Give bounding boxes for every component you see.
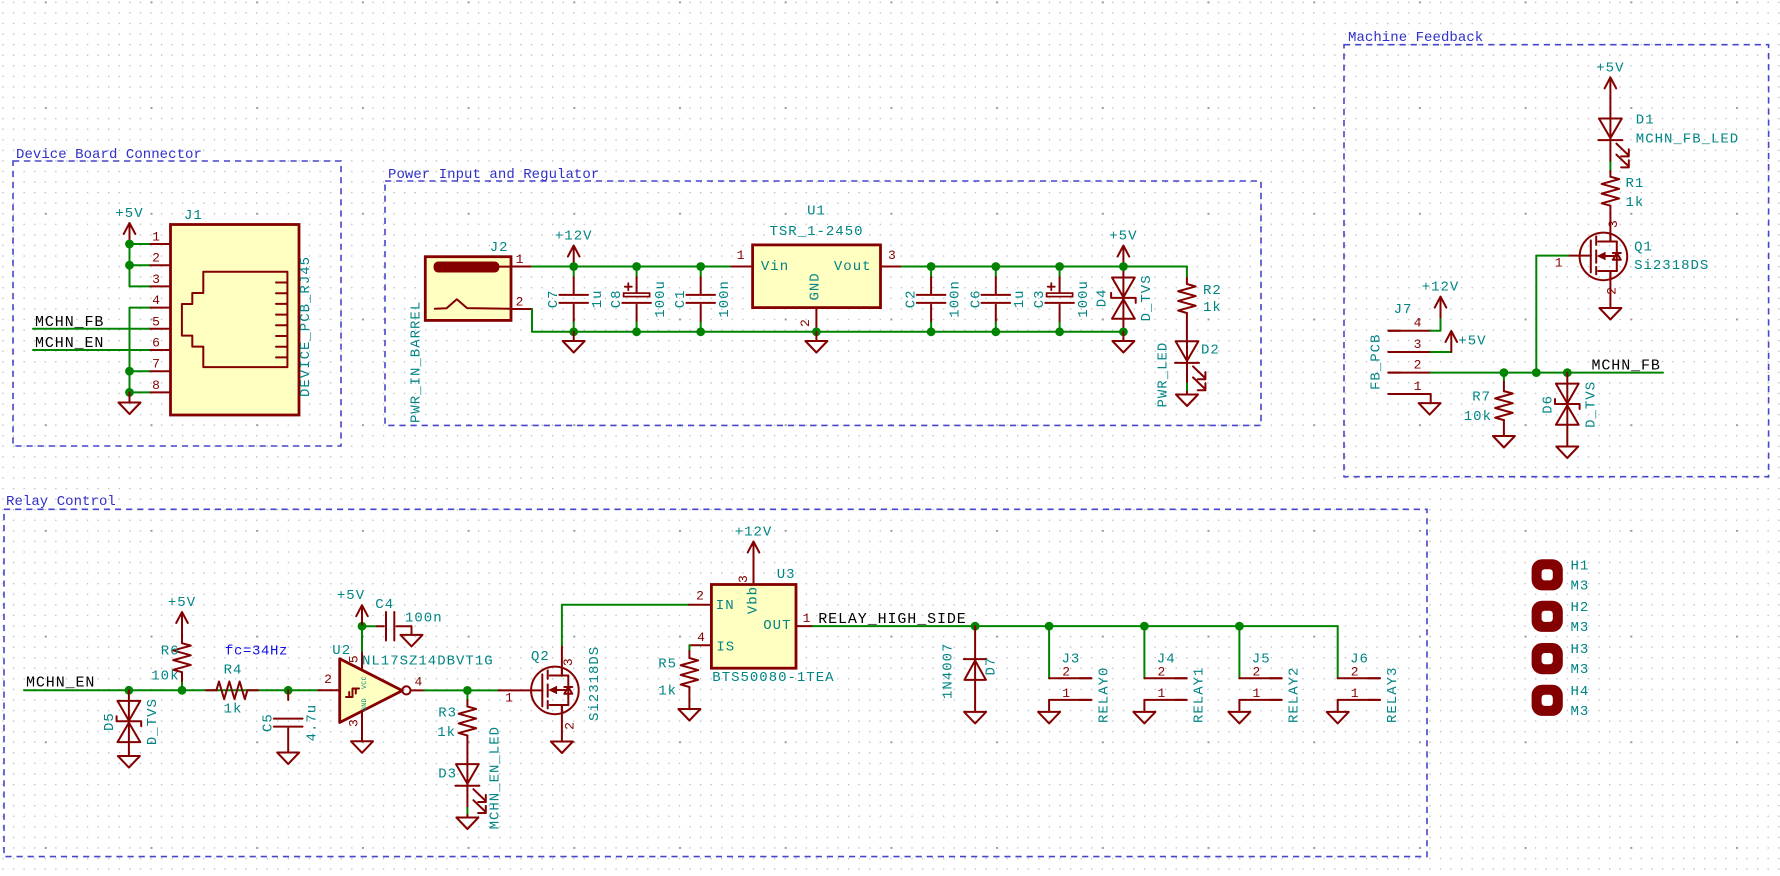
- wire D2 to gnd: [1186, 363, 1188, 384]
- J2 tip contact wave: [435, 299, 511, 309]
- svg-text:C4: C4: [375, 597, 394, 613]
- ground (C5): [277, 753, 299, 765]
- resistor R3 1k: [466, 690, 468, 700]
- svg-text:100n: 100n: [405, 611, 443, 627]
- junction D4 top: [1119, 262, 1128, 271]
- svg-text:Si2318DS: Si2318DS: [1634, 258, 1709, 274]
- wire down to pin3: [130, 244, 150, 286]
- U2 pin 4 output: [411, 689, 425, 691]
- svg-text:Si2318DS: Si2318DS: [587, 646, 603, 721]
- svg-text:+5V: +5V: [168, 595, 196, 611]
- U1 pin 2 GND: [815, 308, 817, 332]
- svg-text:FB_PCB: FB_PCB: [1369, 334, 1385, 390]
- svg-text:R3: R3: [438, 706, 457, 722]
- svg-text:3: 3: [561, 658, 576, 666]
- svg-text:RELAY3: RELAY3: [1385, 667, 1401, 723]
- svg-text:M3: M3: [1571, 578, 1590, 594]
- diode D4 D_TVS: [1122, 267, 1124, 278]
- switch U3 body: [711, 585, 796, 669]
- wire to J4: [1143, 626, 1145, 678]
- svg-text:Q2: Q2: [531, 649, 550, 665]
- ground (J7 pin1): [1430, 394, 1432, 403]
- junction C7 bottom: [569, 327, 578, 336]
- svg-text:U3: U3: [777, 567, 796, 583]
- svg-text:IN: IN: [716, 598, 735, 614]
- resistor R7 10k: [1503, 373, 1505, 382]
- J2 barrel pin bar: [434, 262, 500, 273]
- svg-text:M3: M3: [1571, 662, 1590, 678]
- svg-text:MCHN_FB_LED: MCHN_FB_LED: [1636, 132, 1739, 148]
- junction U2 vcc: [358, 622, 367, 631]
- wire J7 pin3 to +5V: [1431, 351, 1452, 353]
- junction D5: [124, 686, 133, 695]
- svg-text:2: 2: [562, 722, 577, 730]
- wire J7 pin4 to +12V: [1431, 318, 1441, 331]
- U3 pin 3 Vbb: [753, 563, 755, 585]
- svg-text:5: 5: [347, 655, 362, 663]
- svg-text:M3: M3: [1571, 620, 1590, 636]
- svg-text:GND: GND: [808, 272, 824, 300]
- ground (D3): [456, 818, 478, 830]
- svg-text:M3: M3: [1571, 704, 1590, 720]
- wire to J5: [1238, 626, 1240, 678]
- svg-text:R7: R7: [1472, 390, 1491, 406]
- wire pin1 bus: [130, 243, 150, 245]
- svg-text:4: 4: [152, 293, 160, 308]
- svg-text:PWR_LED: PWR_LED: [1156, 342, 1172, 408]
- svg-text:R2: R2: [1203, 283, 1222, 299]
- svg-text:TSR_1-2450: TSR_1-2450: [769, 224, 863, 240]
- svg-text:4: 4: [414, 674, 422, 689]
- wire +5V to D1: [1609, 98, 1611, 118]
- junction D7: [971, 622, 980, 631]
- svg-text:D_TVS: D_TVS: [145, 698, 161, 745]
- svg-text:1k: 1k: [224, 702, 243, 718]
- svg-text:4: 4: [697, 630, 705, 645]
- wire Q2 drain to U3 IN: [562, 605, 689, 646]
- ground (J3): [1048, 700, 1050, 712]
- junction C2 top: [927, 262, 936, 271]
- svg-text:R6: R6: [161, 643, 180, 659]
- wire MCHN_FB (feedback): [1431, 372, 1663, 374]
- section box: Relay Control: [4, 509, 1427, 856]
- svg-text:J3: J3: [1062, 651, 1081, 667]
- resistor R4 1k: [206, 689, 216, 691]
- U3 pin 4 IS: [690, 644, 712, 646]
- svg-text:+5V: +5V: [1458, 333, 1486, 349]
- svg-text:H2: H2: [1571, 600, 1590, 616]
- svg-text:D_TVS: D_TVS: [1139, 274, 1155, 321]
- wire D3 to gnd: [466, 786, 468, 808]
- junction D6: [1563, 368, 1572, 377]
- wire J2 pin2 to gnd rail: [531, 309, 533, 332]
- svg-text:1: 1: [1157, 686, 1165, 701]
- svg-text:R1: R1: [1626, 176, 1645, 192]
- J1 RJ45 jack drawing: [182, 272, 288, 367]
- svg-text:NL17SZ14DBVT1G: NL17SZ14DBVT1G: [362, 654, 494, 670]
- svg-text:7: 7: [152, 357, 160, 372]
- svg-text:DEVICE_PCB_RJ45: DEVICE_PCB_RJ45: [298, 256, 314, 397]
- svg-text:100u: 100u: [1076, 280, 1092, 318]
- svg-text:3: 3: [1606, 220, 1621, 228]
- wire gate to MCHN_FB: [1536, 255, 1568, 257]
- svg-text:1: 1: [152, 230, 160, 245]
- J7 pin 1: [1388, 393, 1430, 395]
- connector J5 pin 2: [1239, 677, 1281, 679]
- Q2 drain pin: [561, 645, 563, 676]
- svg-text:MCHN_EN_LED: MCHN_EN_LED: [488, 726, 504, 829]
- junction C3 top: [1055, 262, 1064, 271]
- svg-text:C5: C5: [261, 713, 277, 732]
- Q1 source pin: [1609, 271, 1611, 308]
- capacitor C8 100u: [636, 267, 638, 278]
- J7 pin 2: [1388, 372, 1430, 374]
- svg-text:2: 2: [1414, 357, 1422, 372]
- junction C7 top: [569, 262, 578, 271]
- svg-text:J1: J1: [184, 208, 203, 224]
- section box: Power Input and Regulator: [385, 181, 1261, 425]
- capacitor C4 100n: [362, 625, 377, 627]
- wire MCHN_FB: [33, 328, 149, 330]
- svg-text:100n: 100n: [717, 280, 733, 318]
- svg-text:10k: 10k: [1464, 409, 1492, 425]
- ground (J6): [1337, 700, 1339, 712]
- svg-text:VCC: VCC: [361, 676, 368, 689]
- capacitor C6 1u: [995, 267, 997, 278]
- connector J4 pin 2: [1144, 677, 1186, 679]
- junction pin7: [125, 367, 134, 376]
- wire to J3: [1048, 626, 1050, 678]
- svg-text:2: 2: [798, 319, 813, 327]
- junction R6: [178, 686, 187, 695]
- svg-text:RELAY_HIGH_SIDE: RELAY_HIGH_SIDE: [818, 611, 967, 628]
- svg-text:C2: C2: [904, 289, 920, 308]
- svg-text:1: 1: [1351, 686, 1359, 701]
- regulator U1 body: [753, 245, 881, 308]
- svg-text:+12V: +12V: [735, 525, 773, 541]
- svg-text:3: 3: [152, 272, 160, 287]
- svg-text:1: 1: [1555, 255, 1563, 270]
- svg-text:1: 1: [1062, 686, 1070, 701]
- svg-text:IS: IS: [716, 639, 735, 655]
- junction J5: [1235, 622, 1244, 631]
- svg-text:RELAY1: RELAY1: [1192, 667, 1208, 723]
- ground (Q2): [551, 742, 573, 754]
- svg-text:Vout: Vout: [834, 259, 872, 275]
- junction pin8: [125, 388, 134, 397]
- power +5V (J7): [1450, 333, 1452, 353]
- transistor Q2 Si2318DS: [531, 667, 579, 715]
- junction C6 top: [991, 262, 1000, 271]
- junction R7: [1500, 368, 1509, 377]
- mounting hole H4 M3: [1532, 685, 1563, 716]
- ground (R7): [1493, 436, 1515, 448]
- U1 pin 1 Vin: [731, 266, 752, 268]
- buffer U2 body: [340, 659, 403, 723]
- svg-text:D3: D3: [438, 766, 457, 782]
- power +5V (U2): [361, 607, 363, 627]
- wire MCHN_EN: [33, 349, 149, 351]
- svg-text:+12V: +12V: [555, 229, 593, 245]
- wire R3 to D3: [466, 736, 468, 765]
- svg-text:MCHN_FB: MCHN_FB: [1592, 358, 1661, 375]
- svg-text:2: 2: [696, 588, 704, 603]
- barrel jack J2 body: [425, 257, 511, 321]
- svg-text:2: 2: [1604, 287, 1619, 295]
- U3 pin 1 OUT: [796, 625, 813, 627]
- svg-text:1: 1: [803, 611, 811, 626]
- svg-text:2: 2: [152, 251, 160, 266]
- svg-text:C6: C6: [968, 289, 984, 308]
- svg-text:1k: 1k: [437, 725, 456, 741]
- capacitor C1 100n: [700, 267, 702, 278]
- wire R5 to gnd: [688, 687, 690, 709]
- ground (D5): [118, 756, 140, 768]
- svg-text:D_TVS: D_TVS: [1583, 381, 1599, 428]
- svg-text:+12V: +12V: [1422, 280, 1460, 296]
- J1 pins 1-8 with numbers: [149, 243, 171, 245]
- ground (D2): [1176, 395, 1198, 407]
- svg-text:R4: R4: [224, 663, 243, 679]
- svg-text:1k: 1k: [1203, 300, 1222, 316]
- svg-text:Machine Feedback: Machine Feedback: [1348, 30, 1483, 46]
- capacitor C5 4.7u: [287, 690, 289, 700]
- power +5V (J1): [129, 225, 131, 245]
- svg-text:OUT: OUT: [763, 618, 791, 634]
- LED D2 PWR_LED: [1186, 341, 1188, 363]
- LED D3 MCHN_EN_LED: [466, 764, 468, 786]
- ground (J5): [1238, 700, 1240, 712]
- ground (D6): [1556, 447, 1578, 459]
- junction C3 bottom: [1055, 327, 1064, 336]
- ground (U1): [815, 332, 817, 341]
- wire pin7: [130, 370, 150, 372]
- U3 pin 2 IN: [689, 604, 711, 606]
- ground (J4): [1143, 700, 1145, 712]
- power +5V (machine feedback): [1609, 79, 1611, 99]
- svg-text:1: 1: [1414, 379, 1422, 394]
- svg-text:6: 6: [152, 336, 160, 351]
- Q2 gate pin: [499, 689, 543, 691]
- mounting hole H1 M3: [1532, 559, 1563, 590]
- wire pin4 to gnd bus: [130, 308, 150, 393]
- svg-text:3: 3: [1414, 337, 1422, 352]
- svg-text:D2: D2: [1201, 343, 1220, 359]
- svg-text:4: 4: [1414, 316, 1422, 331]
- U2 output bubble: [402, 686, 410, 694]
- svg-text:D7: D7: [984, 657, 1000, 676]
- connector J3 pin 1: [1049, 699, 1091, 701]
- section box: Device Board Connector: [13, 161, 341, 446]
- svg-text:Q1: Q1: [1634, 239, 1653, 255]
- power +5V (R6): [181, 614, 183, 634]
- svg-text:+5V: +5V: [1596, 60, 1624, 76]
- J2 pin 2: [511, 308, 532, 310]
- junction C8 top: [632, 262, 641, 271]
- wire MCHN_EN (relay): [24, 689, 319, 691]
- svg-text:C1: C1: [673, 289, 689, 308]
- U2 pin 5 VCC: [361, 651, 363, 670]
- connector J4 pin 1: [1144, 699, 1186, 701]
- ground (R5): [678, 709, 700, 721]
- resistor R2 1k: [1186, 278, 1188, 284]
- junction pin1: [125, 240, 134, 249]
- svg-text:Device Board Connector: Device Board Connector: [16, 147, 202, 163]
- junction C8 bottom: [632, 327, 641, 336]
- wire U2 out: [424, 689, 498, 691]
- connector J3 pin 2: [1049, 677, 1091, 679]
- svg-text:PWR_IN_BARREL: PWR_IN_BARREL: [409, 301, 425, 423]
- svg-text:D5: D5: [102, 712, 118, 731]
- diode D6 D_TVS: [1566, 373, 1568, 384]
- svg-text:H4: H4: [1571, 684, 1590, 700]
- power +12V (J7): [1440, 298, 1442, 318]
- svg-text:1: 1: [505, 691, 513, 706]
- capacitor C7 1u: [573, 267, 575, 278]
- wire RELAY_HIGH_SIDE: [813, 625, 1338, 627]
- svg-text:RELAY2: RELAY2: [1287, 667, 1303, 723]
- wire R7 to gnd: [1503, 420, 1505, 436]
- svg-text:MCHN_EN: MCHN_EN: [26, 674, 95, 691]
- svg-text:+5V: +5V: [1109, 229, 1137, 245]
- junction pin2: [125, 261, 134, 270]
- svg-text:Vin: Vin: [761, 259, 789, 275]
- svg-text:1: 1: [516, 252, 524, 267]
- junction C6 bottom: [991, 327, 1000, 336]
- wire to R2: [1186, 267, 1188, 279]
- Q1 gate pin: [1568, 255, 1591, 257]
- svg-text:D4: D4: [1094, 288, 1110, 307]
- svg-text:H3: H3: [1571, 642, 1590, 658]
- wire pin2: [130, 264, 150, 266]
- wire D1 to R1: [1609, 142, 1611, 162]
- wire +12V rail: [532, 266, 731, 268]
- svg-text:1u: 1u: [590, 289, 606, 308]
- svg-text:5: 5: [152, 314, 160, 329]
- wire +5V to pin5: [361, 626, 363, 651]
- svg-text:3: 3: [736, 575, 751, 583]
- svg-text:100u: 100u: [653, 280, 669, 318]
- J7 pin 3: [1388, 351, 1430, 353]
- svg-text:+5V: +5V: [115, 206, 143, 222]
- power +5V (regulator out): [1122, 247, 1124, 267]
- U2 pin 2 input: [319, 689, 340, 691]
- wire R1 to Q1 drain: [1609, 206, 1611, 242]
- svg-text:D6: D6: [1541, 395, 1557, 414]
- svg-text:+5V: +5V: [337, 588, 365, 604]
- svg-text:J2: J2: [490, 240, 509, 256]
- svg-text:1N4007: 1N4007: [941, 643, 957, 699]
- svg-text:10k: 10k: [151, 669, 179, 685]
- wire gate vertical: [1535, 256, 1537, 373]
- wire D5 to gnd: [128, 742, 130, 756]
- junction J3: [1045, 622, 1054, 631]
- wire R2 to D2: [1186, 313, 1188, 341]
- svg-text:U1: U1: [807, 204, 826, 220]
- diode D7 1N4007: [974, 626, 976, 680]
- power +12V: [573, 247, 575, 267]
- svg-text:4.7u: 4.7u: [305, 704, 321, 742]
- Q2 source pin: [561, 705, 563, 742]
- section box: Machine Feedback: [1344, 45, 1769, 477]
- svg-text:fc=34Hz: fc=34Hz: [225, 643, 288, 659]
- capacitor C3 100u: [1059, 267, 1061, 278]
- U2 schmitt symbol: [346, 689, 359, 698]
- ground (C4): [401, 635, 423, 647]
- junction D4 bottom: [1119, 327, 1128, 336]
- ground (J1): [129, 392, 131, 402]
- svg-text:J5: J5: [1252, 651, 1271, 667]
- svg-text:2: 2: [516, 295, 524, 310]
- LED D1 MCHN_FB_LED: [1609, 119, 1611, 141]
- mounting hole H3 M3: [1532, 643, 1563, 674]
- wire pin8: [130, 391, 150, 393]
- ground (C7): [573, 332, 575, 341]
- junction R3: [463, 686, 472, 695]
- junction C5: [284, 686, 293, 695]
- svg-text:J7: J7: [1394, 302, 1413, 318]
- ground (Q1): [1599, 308, 1621, 320]
- svg-text:100n: 100n: [947, 280, 963, 318]
- resistor R6 10k: [181, 681, 183, 690]
- junction U1 GND: [812, 327, 821, 336]
- svg-text:Vbb: Vbb: [746, 586, 762, 614]
- J7 pin 4: [1388, 330, 1430, 332]
- connector J6 pin 2: [1338, 677, 1380, 679]
- svg-text:3: 3: [888, 248, 896, 263]
- svg-text:C3: C3: [1032, 289, 1048, 308]
- svg-text:1k: 1k: [658, 683, 677, 699]
- capacitor C2 100n: [930, 267, 932, 278]
- svg-text:Power Input and Regulator: Power Input and Regulator: [388, 167, 599, 183]
- svg-text:2: 2: [324, 672, 332, 687]
- svg-text:D1: D1: [1636, 113, 1655, 129]
- svg-text:1k: 1k: [1626, 195, 1645, 211]
- ground (D7): [964, 712, 986, 724]
- transistor Q1 Si2318DS: [1580, 233, 1628, 281]
- mounting hole H2 M3: [1532, 601, 1563, 632]
- U2 pin 3 GND: [361, 711, 363, 741]
- diode D5 D_TVS: [128, 690, 130, 701]
- resistor R1 1k: [1602, 177, 1620, 206]
- svg-text:RELAY0: RELAY0: [1096, 667, 1112, 723]
- ground (U2): [351, 741, 373, 753]
- svg-text:1u: 1u: [1012, 289, 1028, 308]
- connector J5 pin 1: [1239, 699, 1281, 701]
- J2 pin 1: [511, 266, 532, 268]
- wire D6 to gnd: [1566, 425, 1568, 447]
- svg-text:Relay Control: Relay Control: [6, 494, 116, 510]
- svg-text:C7: C7: [546, 289, 562, 308]
- svg-text:J6: J6: [1350, 651, 1369, 667]
- junction C1 top: [696, 262, 705, 271]
- svg-text:BTS50080-1TEA: BTS50080-1TEA: [712, 670, 834, 686]
- junction C2 bottom: [927, 327, 936, 336]
- svg-text:H1: H1: [1571, 558, 1590, 574]
- svg-text:GND: GND: [361, 698, 368, 711]
- junction Q1 gate: [1532, 368, 1541, 377]
- svg-text:C8: C8: [609, 289, 625, 308]
- U1 pin 3 Vout: [881, 266, 902, 268]
- connector J6 pin 1: [1338, 699, 1380, 701]
- resistor R5 1k: [688, 645, 690, 651]
- svg-text:8: 8: [152, 378, 160, 393]
- wire +5V rail: [902, 266, 1187, 268]
- svg-text:1: 1: [737, 248, 745, 263]
- svg-text:J4: J4: [1157, 651, 1176, 667]
- junction J4: [1140, 622, 1149, 631]
- ground (D4): [1122, 332, 1124, 341]
